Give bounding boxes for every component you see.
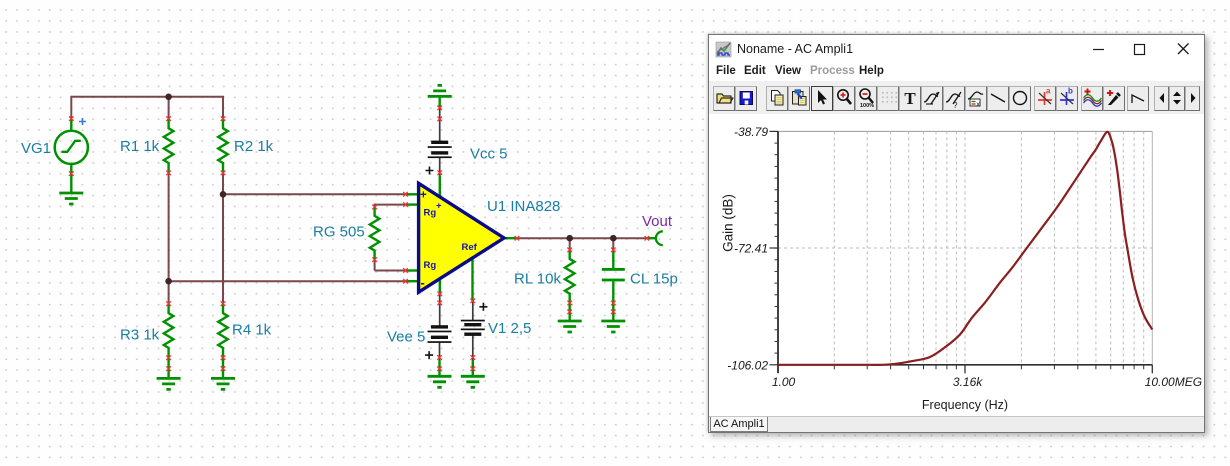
wire R1 top drop — [168, 97, 170, 119]
inverted ground above Vcc — [428, 85, 452, 108]
svg-text:Frequency (Hz): Frequency (Hz) — [922, 398, 1008, 412]
battery Vee — [425, 325, 451, 359]
node A (R2/R4/+in) — [220, 191, 227, 198]
ground below RL — [558, 321, 582, 332]
wire op-amp Ref to V1 battery — [472, 302, 474, 321]
pin connection marks — [69, 106, 649, 372]
svg-text:T: T — [904, 89, 916, 108]
y axis labels — [727, 125, 768, 372]
svg-text:10.00MEG: 10.00MEG — [1145, 375, 1202, 389]
wire op-amp output to Vout — [517, 237, 647, 239]
svg-text:+: + — [420, 190, 427, 202]
ground below CL — [601, 321, 625, 332]
svg-text:+: + — [436, 201, 442, 212]
svg-text:RG 505: RG 505 — [313, 224, 365, 241]
gridline horizontal -72.41 — [778, 247, 1152, 249]
svg-text:-38.79: -38.79 — [734, 125, 768, 139]
svg-text:Vout: Vout — [642, 213, 673, 230]
label R2 1k — [234, 138, 274, 155]
node output/RL — [566, 235, 573, 242]
svg-text:-: - — [421, 275, 425, 290]
minimize button — [1093, 49, 1104, 51]
y axis — [770, 131, 779, 373]
ground below R4 — [211, 378, 235, 389]
label Vout — [642, 213, 673, 230]
svg-text:VG1: VG1 — [21, 140, 51, 157]
svg-text:R2 1k: R2 1k — [234, 138, 274, 155]
svg-text:?: ? — [953, 101, 958, 110]
label V1 2,5 — [488, 320, 531, 337]
resistor R2 — [218, 119, 228, 173]
label R1 1k — [120, 138, 160, 155]
label R3 1k — [120, 327, 160, 344]
wire Vcc battery to op-amp V+ — [439, 157, 441, 175]
svg-text:Vee 5: Vee 5 — [387, 329, 425, 346]
svg-text:-72.41: -72.41 — [734, 242, 768, 256]
svg-text:Ref: Ref — [462, 242, 478, 253]
svg-text:1.00: 1.00 — [772, 375, 796, 389]
battery V1 — [461, 303, 488, 336]
AC gain curve — [778, 132, 1152, 365]
svg-text:100%: 100% — [860, 103, 874, 109]
wire R2 bottom to node A — [222, 173, 224, 194]
svg-text:R4 1k: R4 1k — [232, 322, 272, 339]
maximize button — [1135, 45, 1145, 55]
resistor R3 — [164, 304, 174, 379]
svg-text:Gain (dB): Gain (dB) — [721, 194, 736, 252]
wire node B to op-amp -in — [169, 280, 406, 282]
wire VG1 top drop — [70, 96, 72, 119]
svg-text:Rg: Rg — [424, 260, 437, 271]
x axis — [778, 365, 1152, 374]
wire RG bottom to op-amp Rg2 — [375, 260, 406, 271]
label CL 15p — [630, 271, 678, 288]
wire Vee battery to ground — [439, 342, 441, 376]
label RL 10k — [514, 271, 561, 288]
resistor RG — [370, 207, 380, 260]
wire Vcc ground to battery — [439, 108, 441, 143]
node output/CL — [610, 235, 617, 242]
label Vcc 5 — [470, 146, 508, 163]
svg-text:U1 INA828: U1 INA828 — [487, 198, 560, 215]
wire top rail VG1 to R2 — [71, 96, 223, 98]
svg-text:3.16k: 3.16k — [953, 375, 983, 389]
label R4 1k — [232, 322, 272, 339]
label Vee 5 — [387, 329, 425, 346]
op-amp U1 INA828 — [406, 176, 517, 302]
ground below V1 — [461, 376, 485, 387]
svg-text:Rg: Rg — [424, 208, 437, 219]
battery Vcc — [426, 141, 452, 175]
wire R1 bottom to node B — [168, 173, 170, 281]
svg-text:b: b — [1068, 87, 1073, 96]
axis title Gain — [721, 194, 736, 252]
wire node A to op-amp +in — [223, 193, 406, 195]
svg-text:a: a — [1046, 87, 1051, 96]
terminal Vout — [647, 231, 663, 245]
axis title Frequency — [922, 398, 1008, 412]
plot frame — [778, 131, 1152, 364]
ground below R3 — [157, 378, 181, 389]
wire node B down to R3 — [168, 281, 170, 303]
log gridlines vertical — [834, 131, 1143, 364]
wire output node to RL — [569, 238, 571, 250]
ground below VG1 — [59, 193, 83, 204]
wire R2 top drop — [222, 96, 224, 119]
wire output node to CL — [612, 238, 614, 250]
svg-text:Vcc 5: Vcc 5 — [470, 146, 508, 163]
wire op-amp V- to Vee battery — [439, 294, 441, 327]
wire V1 battery to ground — [472, 334, 474, 376]
x axis labels — [772, 375, 1202, 389]
resistor RL — [565, 250, 575, 321]
svg-text:V1 2,5: V1 2,5 — [488, 320, 531, 337]
svg-text:CL 15p: CL 15p — [630, 271, 678, 288]
node B (R1/R3/-in) — [165, 278, 172, 285]
diagram window Noname - AC Ampli1 — [708, 34, 1205, 433]
svg-text:RL 10k: RL 10k — [514, 271, 561, 288]
label VG1 — [21, 140, 51, 157]
resistor R4 — [218, 304, 228, 379]
ground below Vee — [428, 376, 452, 387]
svg-text:-106.02: -106.02 — [727, 358, 768, 372]
svg-text:R1 1k: R1 1k — [120, 138, 160, 155]
wire node A down to R4 — [222, 194, 224, 303]
node rail/R1 — [165, 94, 172, 101]
wire op-amp Rg1 to RG top — [375, 204, 406, 207]
capacitor CL — [602, 250, 625, 321]
resistor R1 — [164, 119, 174, 173]
voltage generator VG1 — [55, 118, 88, 193]
svg-text:R3 1k: R3 1k — [120, 327, 160, 344]
close button — [1178, 44, 1189, 55]
label RG 505 — [313, 224, 365, 241]
label U1 INA828 — [487, 198, 560, 215]
window icon — [716, 42, 731, 57]
